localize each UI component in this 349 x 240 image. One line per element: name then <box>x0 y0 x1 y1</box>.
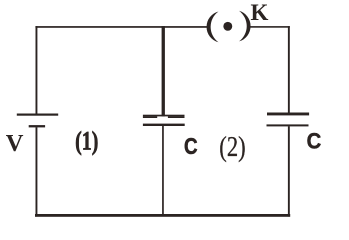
wire middle branch thick upper <box>162 26 165 116</box>
switch K right contact arc <box>239 11 251 42</box>
capacitor C2 top plate <box>267 113 309 116</box>
svg-text:C: C <box>307 128 322 153</box>
switch K left contact arc <box>207 12 219 43</box>
node (1) region label <box>75 127 98 156</box>
label C (middle capacitor value) <box>184 133 198 160</box>
switch K button dot <box>223 22 232 31</box>
battery V (long positive plate) <box>17 114 58 116</box>
capacitor C1 top plate <box>143 115 185 118</box>
svg-text:(2): (2) <box>219 130 245 162</box>
svg-text:K: K <box>251 0 269 25</box>
wire middle branch lower <box>162 126 164 216</box>
wire left branch upper <box>36 26 38 114</box>
label V (battery value) <box>6 130 24 157</box>
label K (switch designator) <box>251 0 269 25</box>
capacitor C1 bottom plate <box>143 124 185 126</box>
wire top rail left segment <box>35 26 207 28</box>
wire left branch lower <box>36 127 38 216</box>
node (2) region label <box>219 130 245 162</box>
svg-text:C: C <box>184 133 198 160</box>
capacitor C2 bottom plate <box>267 124 309 126</box>
svg-text:(1): (1) <box>75 127 98 156</box>
wire bottom rail <box>35 214 290 217</box>
svg-text:V: V <box>6 130 24 157</box>
label C (right capacitor value) <box>307 128 322 153</box>
wire right branch lower <box>288 126 290 216</box>
battery V (short negative plate) <box>29 125 45 127</box>
wire right branch upper <box>288 26 290 113</box>
wire top rail right segment <box>250 26 290 28</box>
